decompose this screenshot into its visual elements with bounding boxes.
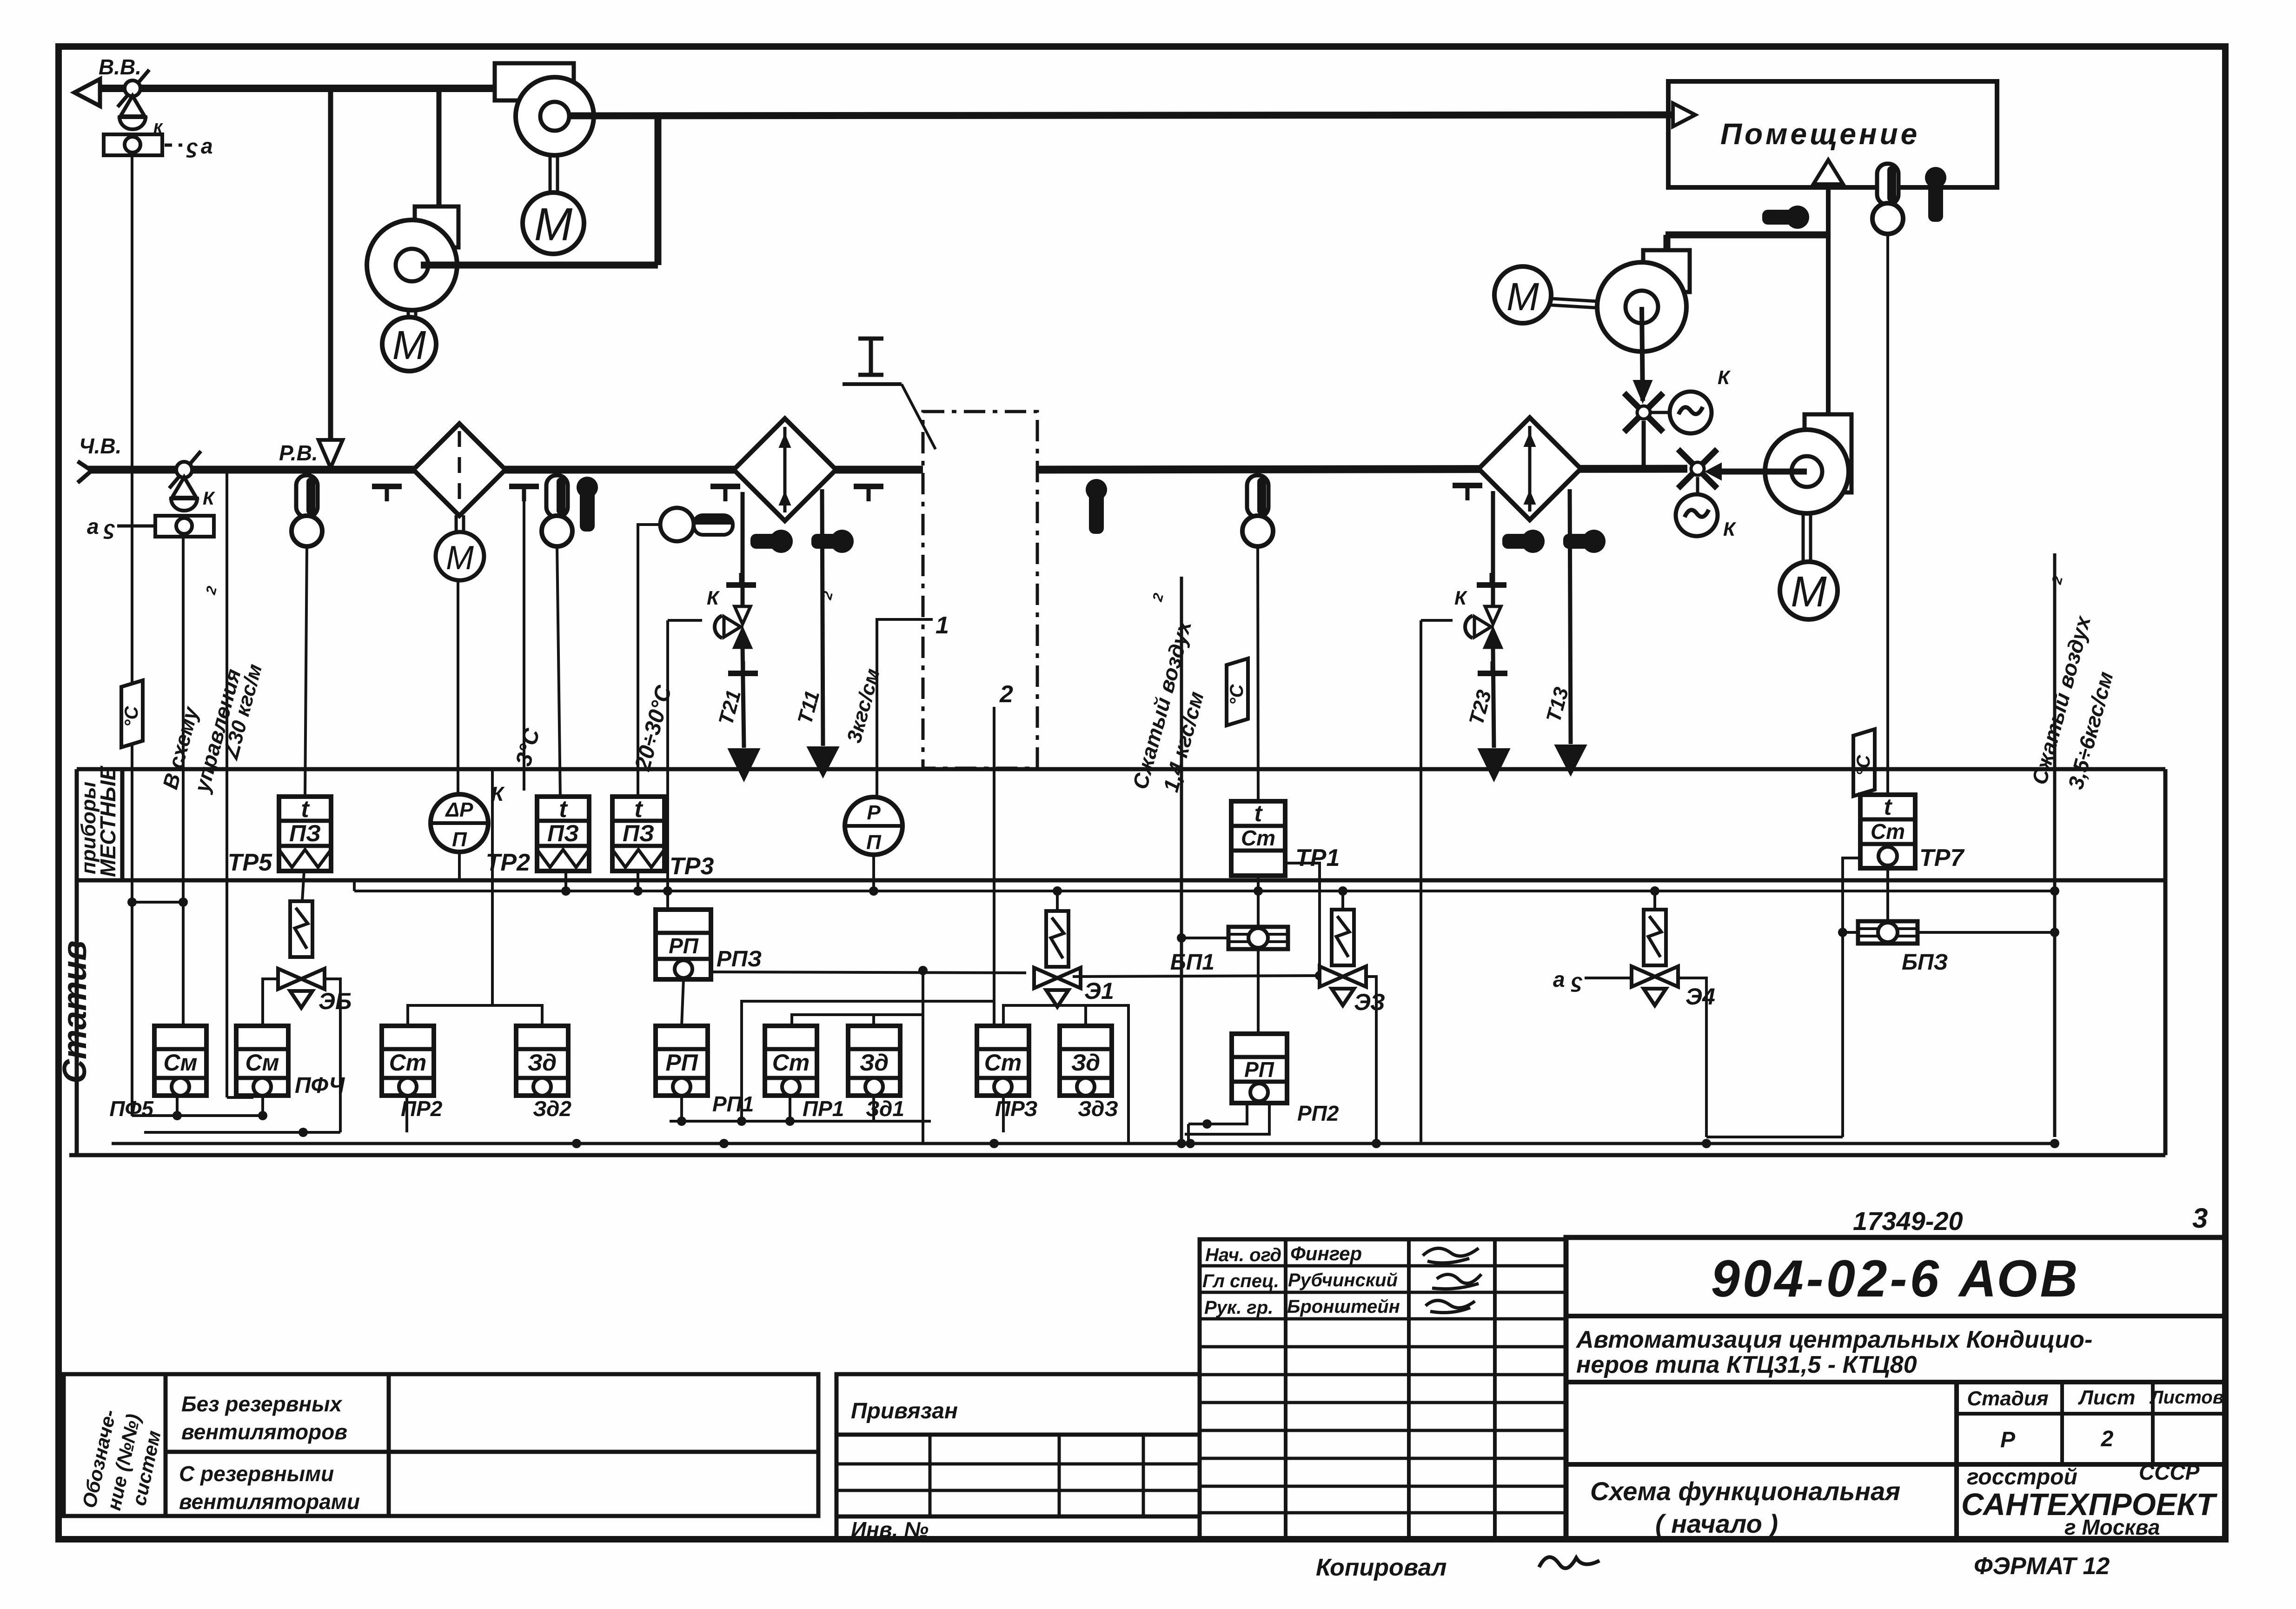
block TR7 — [1860, 794, 1915, 868]
wire air to BP1 — [1181, 937, 1228, 939]
svg-text:ПЗ: ПЗ — [547, 820, 579, 846]
systems designation table — [64, 1374, 818, 1516]
svg-text:ТР1: ТР1 — [1295, 844, 1340, 871]
svg-text:ЭБ: ЭБ — [319, 988, 352, 1014]
shutoff X1 — [1624, 393, 1663, 432]
svg-text:1: 1 — [936, 612, 949, 639]
wire supply duct to room — [570, 115, 1671, 116]
block ST PR3 — [977, 1026, 1029, 1096]
wire bottom left run1 — [132, 1114, 259, 1117]
svg-text:М: М — [446, 539, 474, 577]
sensor pocket mid duct — [1086, 479, 1107, 534]
svg-text:Нач. огд: Нач. огд — [1205, 1245, 1281, 1265]
damper K on fresh air duct — [155, 451, 214, 537]
pocket in room duct — [1762, 206, 1809, 229]
wire TR7 to BP3 — [1886, 868, 1889, 923]
svg-text:Фингер: Фингер — [1290, 1243, 1362, 1264]
wire bus left end — [353, 881, 356, 891]
wire to control circuit — [226, 470, 228, 1097]
svg-text:СССР: СССР — [2139, 1460, 2200, 1484]
svg-text:2: 2 — [999, 681, 1013, 708]
svg-text:Зд2: Зд2 — [533, 1097, 571, 1121]
wire EB right — [325, 979, 340, 1132]
wire PR3-ZD3 — [1003, 1005, 1086, 1026]
wire TR3 to bus — [637, 871, 639, 891]
thermometer T supply — [1242, 475, 1273, 546]
wire RP2 out1 — [1188, 1103, 1247, 1124]
damper K on V.V. line — [104, 70, 162, 155]
wire PR2-ZD2 — [408, 1005, 542, 1026]
wire band to PR2 link — [491, 769, 494, 1005]
block TR3 — [612, 796, 664, 871]
wire cascade PR1 outer — [742, 1001, 994, 1121]
svg-text:М: М — [1506, 275, 1539, 319]
svg-text:Помещение: Помещение — [1720, 117, 1920, 151]
block RP1 — [656, 1026, 708, 1096]
3-way valve K heater2 — [1465, 606, 1501, 647]
svg-text:ФЭРМАТ 12: ФЭРМАТ 12 — [1974, 1553, 2110, 1580]
svg-text:г Москва: г Москва — [2064, 1515, 2160, 1539]
actuator EB — [290, 901, 312, 957]
svg-text:Р: Р — [867, 801, 881, 824]
svg-text:Привязан: Привязан — [851, 1399, 958, 1423]
valve E4 — [1632, 966, 1678, 1005]
svg-text:ϛ: ϛ — [186, 135, 198, 158]
svg-text:К: К — [1723, 518, 1737, 540]
room thermometer — [1872, 164, 1903, 234]
svg-text:к: к — [153, 117, 163, 137]
block ST PR2 — [382, 1026, 434, 1096]
block ZD1 — [848, 1026, 900, 1096]
svg-text:ЭЗ: ЭЗ — [1354, 989, 1385, 1015]
svg-text:а: а — [201, 134, 213, 158]
funnel R.V. — [319, 440, 343, 468]
actuator E3 — [1332, 910, 1354, 965]
solenoid K X2 — [1676, 494, 1718, 536]
svg-text:ПЗ: ПЗ — [289, 820, 321, 846]
wire BP1 to RP2 — [1257, 949, 1260, 1034]
wire V.V. to fan2 inlet — [437, 88, 442, 207]
svg-text:П: П — [452, 828, 467, 851]
stub on pipe — [728, 661, 758, 673]
svg-text:Копировал: Копировал — [1316, 1554, 1447, 1581]
section I chamber dash-dot box — [923, 412, 1037, 768]
svg-text:t: t — [1254, 800, 1263, 826]
wire room to fan4 — [1826, 184, 1831, 414]
wire R/P to bus — [872, 855, 875, 891]
wire steam pressure to R/P — [877, 619, 933, 798]
svg-text:ЗдЗ: ЗдЗ — [1078, 1097, 1118, 1121]
block TR1 — [1231, 800, 1285, 876]
svg-text:Э4: Э4 — [1686, 984, 1715, 1010]
svg-text:ПФЧ: ПФЧ — [295, 1073, 345, 1098]
svg-text:ПРЗ: ПРЗ — [995, 1097, 1038, 1121]
3-way valve K heater1 — [715, 606, 750, 647]
heater stub right — [509, 486, 539, 501]
valve E3 — [1320, 966, 1366, 1005]
shutoff X2 on duct — [1678, 449, 1717, 488]
svg-text:Ст: Ст — [1871, 819, 1905, 844]
svg-text:Рук. гр.: Рук. гр. — [1204, 1297, 1273, 1318]
block BP1 — [1228, 927, 1288, 949]
wire BP3 to air line — [1918, 931, 2055, 934]
wire TR1 to E3 line — [1285, 863, 1320, 976]
svg-text:Ст: Ст — [389, 1050, 427, 1076]
svg-text:2: 2 — [2101, 1427, 2114, 1451]
fan V3 exhaust — [1597, 250, 1690, 352]
leader — [902, 384, 936, 449]
svg-text:С резервными: С резервными — [179, 1462, 334, 1486]
heater2 return pipe with valve — [1491, 491, 1495, 609]
main title block — [1566, 1237, 2225, 1539]
svg-text:Стадия: Стадия — [1967, 1387, 2048, 1410]
svg-text:Схема функциональная: Схема функциональная — [1590, 1476, 1900, 1506]
svg-text:ТР3: ТР3 — [670, 853, 714, 880]
svg-text:а: а — [87, 514, 99, 539]
block RP2 — [1232, 1034, 1287, 1103]
room exhaust funnel — [1813, 160, 1843, 184]
svg-text:Ст: Ст — [772, 1050, 810, 1076]
wire after-filter tap — [523, 501, 525, 791]
svg-text:Автоматизация центральных Ко: Автоматизация центральных Кондицио- — [1575, 1326, 2092, 1353]
wire TR7 left down — [1843, 858, 1860, 1137]
svg-text:госстрой: госстрой — [1967, 1465, 2077, 1489]
stub on pipe — [726, 573, 756, 585]
svg-text:Инв. №: Инв. № — [851, 1517, 929, 1542]
svg-text:МЕСТНЫЕ: МЕСТНЫЕ — [96, 765, 120, 877]
svg-text:РП1: РП1 — [712, 1092, 754, 1116]
svg-text:ПЗ: ПЗ — [623, 820, 654, 846]
thermometer T after filter — [542, 475, 572, 546]
self-cleaning filter — [413, 424, 505, 516]
svg-text:t: t — [1884, 794, 1893, 820]
privyazan box — [836, 1374, 1200, 1539]
wire PR2 down — [405, 1096, 408, 1132]
valve EB — [278, 969, 325, 1008]
svg-text:Р: Р — [2000, 1428, 2016, 1452]
wire bottom bus — [112, 1142, 2055, 1145]
indicator C middle — [1227, 658, 1248, 725]
wire to TR1 — [1258, 546, 1258, 801]
wire compressed air 3.5-6 — [2053, 553, 2057, 1137]
svg-text:См: См — [163, 1050, 197, 1076]
fan V1 with motor M — [495, 63, 594, 254]
wire valve to band — [1421, 619, 1453, 622]
svg-text:904-02-6 АОВ: 904-02-6 АОВ — [1711, 1250, 2081, 1308]
svg-text:17349-20: 17349-20 — [1853, 1206, 1963, 1236]
svg-text:М: М — [392, 323, 426, 368]
fan V2 with motor M — [367, 206, 458, 371]
block ZD3 — [1060, 1026, 1112, 1096]
svg-text:Бронштейн: Бронштейн — [1287, 1297, 1400, 1317]
leader shelf — [843, 382, 902, 386]
svg-text:ТР5: ТР5 — [228, 849, 272, 876]
svg-text:К: К — [707, 587, 720, 609]
wire fan2 discharge — [421, 262, 658, 269]
wire E1 to E3 — [1073, 976, 1320, 977]
wire to TR5 — [305, 546, 307, 797]
svg-text:РП: РП — [665, 1050, 698, 1076]
wire cascade PR1 inner — [792, 1015, 923, 1026]
svg-text:Р.В.: Р.В. — [279, 441, 318, 465]
svg-text:3: 3 — [2192, 1203, 2208, 1234]
svg-text:°С: °С — [1853, 754, 1874, 776]
wire RP2 out2 — [1185, 1103, 1269, 1134]
svg-text:В.В.: В.В. — [99, 55, 141, 79]
pocket pair 1b — [811, 530, 854, 553]
wire bottom left run2 — [144, 1131, 340, 1134]
heater2 supply pipe T13 — [1570, 489, 1571, 744]
heater stub left — [372, 486, 402, 501]
pocket pair 2b — [1563, 530, 1606, 553]
block ST PR1 — [765, 1026, 817, 1096]
pipe stub — [1478, 661, 1507, 673]
room sensor pocket — [1925, 167, 1946, 222]
svg-text:БПЗ: БПЗ — [1902, 950, 1948, 975]
wire exhaust duct from room — [1666, 232, 1827, 239]
wire filter dP to DR/P — [457, 580, 459, 796]
wire EB to PFCh — [263, 979, 278, 1026]
svg-text:Зд: Зд — [528, 1050, 557, 1076]
supply diffuser triangle — [1673, 103, 1695, 126]
fan V4 exhaust standby — [1765, 414, 1851, 619]
wire TR2 to bus — [564, 871, 567, 891]
actuator E1 — [1046, 911, 1068, 967]
signature table — [1200, 1239, 1566, 1539]
svg-text:а: а — [1553, 967, 1565, 991]
wire RP3 to RP1 — [682, 979, 683, 1026]
svg-text:БП1: БП1 — [1170, 950, 1214, 975]
svg-text:Листов: Листов — [2149, 1387, 2224, 1408]
wire DR/P down — [458, 852, 461, 880]
air heater 2 — [1479, 418, 1581, 520]
svg-text:t: t — [559, 796, 568, 823]
svg-text:РПЗ: РПЗ — [717, 947, 762, 971]
wire exhaust duct — [100, 85, 495, 92]
solenoid K X1 — [1670, 392, 1712, 433]
horizontal thermometer to TR3 — [660, 508, 733, 541]
svg-text:М: М — [1791, 567, 1827, 616]
svg-text:Ч.В.: Ч.В. — [79, 434, 121, 458]
svg-text:Зд1: Зд1 — [866, 1097, 904, 1121]
room box Pomeshchenie — [1668, 81, 1997, 187]
svg-text:ПР1: ПР1 — [803, 1097, 844, 1121]
heater1 return pipe with valve — [741, 492, 745, 609]
wire room temp to TR7 — [1886, 234, 1889, 795]
wire bottom mid run — [670, 1120, 931, 1123]
block TR5 — [279, 796, 331, 871]
svg-text:Лист: Лист — [2078, 1386, 2136, 1409]
svg-text:ТР7: ТР7 — [1919, 844, 1964, 871]
stub — [854, 486, 883, 501]
svg-text:°С: °С — [121, 705, 142, 727]
svg-text:Зд: Зд — [1071, 1050, 1100, 1076]
exhaust air arrow V.V. — [74, 79, 100, 106]
wire a-link join — [132, 901, 183, 904]
svg-text:вентиляторов: вентиляторов — [181, 1420, 347, 1444]
svg-text:М: М — [534, 198, 573, 250]
indicator C right — [1853, 729, 1875, 796]
actuator E4 — [1644, 910, 1666, 965]
block ZD2 — [516, 1026, 568, 1096]
wire a-signal down — [131, 156, 133, 1116]
block SM PF5 — [154, 1026, 206, 1096]
svg-text:t: t — [634, 796, 644, 823]
wire main air duct left part — [88, 466, 923, 474]
svg-text:К: К — [1454, 587, 1468, 609]
pocket pair 2a — [1502, 530, 1545, 553]
svg-text:РП: РП — [1244, 1057, 1274, 1082]
svg-text:ϛ: ϛ — [103, 517, 115, 539]
indicator C left — [121, 680, 143, 747]
block TR2 — [537, 796, 589, 871]
block BP3 — [1858, 921, 1918, 944]
fresh air inlet Ch.V. — [78, 461, 92, 471]
svg-text:Гл спец.: Гл спец. — [1202, 1271, 1279, 1291]
svg-text:П: П — [866, 831, 882, 854]
valve E1 — [1034, 968, 1081, 1007]
wire X1 to duct — [1642, 421, 1646, 470]
svg-text:ПФ5: ПФ5 — [109, 1097, 154, 1121]
svg-text:Ст: Ст — [1241, 826, 1275, 850]
svg-text:См: См — [245, 1050, 279, 1076]
wire compressed air 1.4 — [1180, 577, 1183, 1144]
svg-text:t: t — [301, 796, 310, 823]
svg-text:РП: РП — [669, 934, 699, 958]
svg-text:ΔР: ΔР — [445, 798, 474, 821]
fan4 discharge arrow — [1720, 469, 1807, 475]
block RP3 — [656, 910, 711, 979]
wire recirculation duct R.V. — [328, 88, 333, 470]
svg-text:неров типа КТЦ31,5: неров типа КТЦ31,5 - КТЦ80 — [1576, 1351, 1917, 1378]
svg-text:Статив: Статив — [56, 940, 93, 1084]
svg-text:Без резервных: Без резервных — [181, 1392, 343, 1416]
wire from chamber to PR3 — [993, 707, 995, 1026]
svg-text:( начало ): ( начало ) — [1655, 1509, 1778, 1538]
wire bus — [354, 890, 2055, 892]
svg-text:°С: °С — [1227, 684, 1247, 705]
svg-text:Э1: Э1 — [1084, 978, 1114, 1004]
stand band bottom — [69, 1153, 2165, 1157]
section label I — [858, 337, 883, 341]
wire TR1 to BP1 — [1257, 876, 1260, 927]
wire riser to supply duct — [655, 115, 662, 265]
block DR/P K — [431, 794, 488, 852]
local instruments band — [77, 767, 2165, 771]
wire valve to RP3 — [668, 619, 702, 622]
wire ZD3 link down — [1086, 1005, 1128, 1144]
pipe stub — [1477, 573, 1506, 585]
stub — [710, 486, 740, 501]
sensor pocket after filter — [577, 477, 598, 532]
fan3 down discharge arrow — [1642, 307, 1643, 401]
wire bottom right link — [1706, 1136, 1843, 1138]
wire to TR2 — [557, 546, 560, 798]
svg-text:Зд: Зд — [860, 1050, 889, 1076]
heater1 supply pipe T11 — [822, 489, 823, 746]
wire E3 right down — [1366, 977, 1376, 1144]
fan3 motor M — [1551, 299, 1598, 301]
pocket pair 1a — [750, 530, 793, 553]
wire RP3 to E1 — [711, 972, 1026, 973]
signatures — [1423, 1248, 1479, 1263]
wire E4 right down — [1678, 978, 1706, 1137]
svg-text:Рубчинский: Рубчинский — [1288, 1270, 1398, 1290]
svg-text:вентиляторами: вентиляторами — [179, 1489, 360, 1514]
svg-text:К: К — [203, 488, 215, 509]
thermometer T before filter — [292, 475, 322, 546]
svg-text:К: К — [1718, 366, 1731, 388]
filter motor M — [455, 515, 458, 532]
link a dashed — [165, 144, 182, 147]
wire main air duct right part — [1037, 469, 1687, 470]
svg-text:Ст: Ст — [984, 1050, 1022, 1076]
wire E1 branch down — [922, 971, 924, 1144]
wire to TR3 — [638, 525, 660, 798]
block R/P — [845, 797, 902, 855]
svg-text:РП2: РП2 — [1297, 1101, 1339, 1125]
air heater 1 — [734, 419, 836, 521]
wire ZD1 riser — [872, 1015, 875, 1026]
wire TR5 to EB — [302, 871, 304, 901]
block SM PFCh — [236, 1026, 288, 1096]
svg-text:ϛ: ϛ — [1571, 970, 1582, 992]
wire damper feedback to PF5 — [182, 537, 185, 1026]
stub — [1453, 485, 1482, 500]
